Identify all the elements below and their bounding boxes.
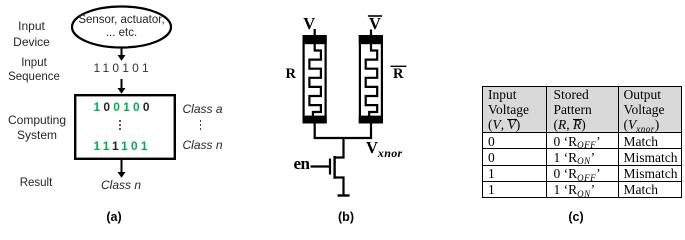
- label: node Vxnor: [366, 140, 402, 157]
- wire: source to ground: [334, 178, 344, 195]
- overline of V-bar label: [368, 15, 382, 17]
- computing system box: [75, 95, 175, 159]
- memristor R-bar top electrode: [359, 35, 383, 44]
- memristor R top electrode: [303, 35, 327, 44]
- label: Computing System: [4, 113, 70, 144]
- wire: node to transistor drain: [334, 137, 344, 158]
- label: Sensor, actuator, ... etc.: [74, 14, 169, 40]
- memristor R bottom electrode: [303, 116, 327, 124]
- wire: left memristor bottom to node: [314, 123, 316, 138]
- label: R-bar (right memristor): [393, 67, 403, 82]
- arrow: device to input sequence: [118, 48, 126, 61]
- caption (b): [326, 210, 366, 224]
- table: XNOR truth table: [482, 86, 682, 198]
- memristor R-bar bottom electrode: [359, 116, 383, 124]
- transistor M1 channel bar: [333, 156, 335, 179]
- label: Result: [8, 177, 64, 190]
- ground: [338, 194, 350, 196]
- arrow: input sequence to computing system: [118, 79, 126, 94]
- arrow: computing system to result: [118, 160, 126, 178]
- label: stored pattern 111101: [94, 139, 151, 153]
- label: Class n (result): [99, 179, 143, 192]
- wire: node Vxnor horizontal: [314, 137, 373, 139]
- label: V-bar (right terminal): [369, 16, 381, 31]
- label: Class a: [181, 103, 225, 116]
- wire: V terminal stub (left): [314, 29, 316, 37]
- label: stored pattern 100100: [94, 100, 153, 114]
- input device ellipse: [72, 7, 171, 48]
- wire: V-bar terminal stub (right): [370, 30, 372, 37]
- label: vertical dots classes: [200, 120, 202, 131]
- caption (c): [556, 210, 596, 224]
- memristor R-bar meander: [366, 43, 378, 117]
- label: input sequence 110101: [94, 61, 152, 75]
- caption (a): [94, 210, 134, 224]
- label: R (left memristor): [286, 67, 296, 82]
- label: V (left terminal): [303, 16, 315, 31]
- label: Class n (right): [181, 139, 225, 152]
- memristor R (left): outline: [304, 36, 326, 122]
- label: vertical dots in box: [119, 120, 121, 131]
- label: en (gate): [294, 156, 310, 171]
- overline of R-bar label: [391, 65, 407, 67]
- wire: right memristor bottom to node: [370, 123, 372, 138]
- label: Input Sequence: [2, 57, 66, 84]
- memristor R meander: [309, 43, 321, 117]
- memristor R-bar (right): outline: [360, 36, 382, 122]
- wire: en to gate: [311, 165, 330, 167]
- label: Input Device: [4, 18, 60, 50]
- transistor M1 gate bar: [329, 159, 331, 175]
